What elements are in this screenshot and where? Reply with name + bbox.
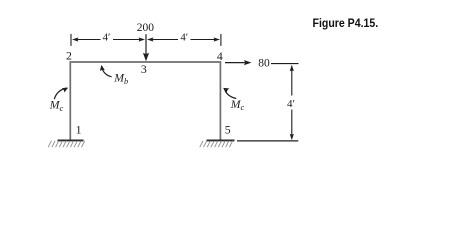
dimension arrowheads (72, 37, 220, 41)
svg-text:4′: 4′ (180, 31, 188, 43)
force 80 arrow at node 4 (225, 62, 245, 64)
right dimension top reference line (271, 63, 299, 65)
frame beam 2-3-4 (70, 62, 220, 140)
dimension end tick at node 2 (70, 34, 72, 46)
dimension end tick at node 4 (220, 34, 222, 46)
svg-text:4: 4 (217, 49, 223, 63)
moment Mc curved arrow on right column (225, 89, 237, 99)
svg-text:80: 80 (258, 58, 270, 70)
hatching at support 5 (200, 141, 233, 147)
support base line at node 5 (207, 139, 235, 141)
support base line at node 1 (58, 139, 84, 141)
svg-text:4′: 4′ (103, 31, 111, 43)
svg-text:4′: 4′ (287, 98, 295, 110)
right vertical dimension line 4' (291, 71, 293, 135)
hatching at support 1 (48, 141, 84, 147)
svg-text:5: 5 (225, 123, 231, 137)
svg-text:3: 3 (141, 62, 147, 76)
right dimension bottom reference line (237, 140, 298, 142)
right dimension arrowheads (290, 65, 294, 72)
svg-text:1: 1 (76, 123, 82, 137)
moment Mc curved arrow on left column (54, 88, 66, 99)
svg-text:2: 2 (66, 49, 72, 63)
svg-text:200: 200 (137, 22, 155, 34)
load 200 arrow at node 3 (145, 34, 147, 54)
svg-text:Figure P4.15.: Figure P4.15. (313, 18, 379, 31)
moment Mb curved arrow at node 3 region (102, 67, 112, 77)
top dimension line spans 4' + 4' (78, 39, 215, 41)
